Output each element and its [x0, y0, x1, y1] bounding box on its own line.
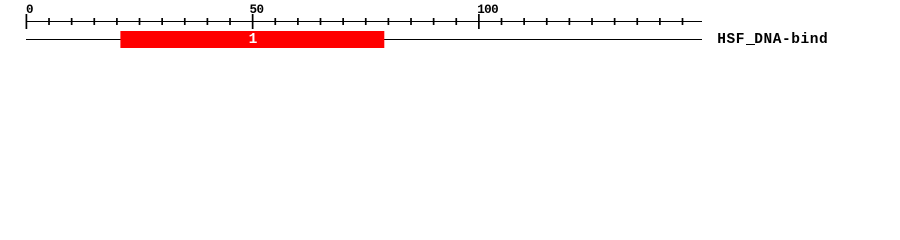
ruler baseline: [26, 21, 702, 22]
domain box 1 HSF_DNA-bind: [120, 31, 384, 48]
ruler minor tick 135: [636, 18, 638, 25]
ruler minor tick 120: [568, 18, 570, 25]
ruler minor tick 30: [161, 18, 163, 25]
ruler minor tick 125: [591, 18, 593, 25]
ruler minor tick 45: [229, 18, 231, 25]
ruler minor tick 20: [116, 18, 118, 25]
ruler tick marks: [0, 0, 900, 58]
ruler minor tick 25: [139, 18, 141, 25]
domain name label HSF_DNA-bind: [717, 33, 828, 48]
ruler major tick 50: [252, 14, 254, 29]
ruler minor tick 5: [48, 18, 50, 25]
ruler major tick 0: [25, 14, 27, 29]
ruler minor tick 15: [93, 18, 95, 25]
ruler label 100: [477, 5, 498, 16]
ruler minor tick 10: [71, 18, 73, 25]
ruler minor tick 65: [320, 18, 322, 25]
ruler major tick 100: [478, 14, 480, 29]
ruler minor tick 60: [297, 18, 299, 25]
ruler label 50: [250, 5, 264, 16]
ruler minor tick 95: [455, 18, 457, 25]
ruler minor tick 40: [206, 18, 208, 25]
ruler minor tick 80: [387, 18, 389, 25]
ruler minor tick 85: [410, 18, 412, 25]
ruler minor tick 130: [614, 18, 616, 25]
ruler minor tick 110: [523, 18, 525, 25]
underscore of HSF_DNA-bind label: [746, 44, 755, 45]
ruler label 0: [26, 5, 33, 16]
ruler minor tick 115: [546, 18, 548, 25]
ruler minor tick 55: [274, 18, 276, 25]
domain number 1: [249, 33, 258, 48]
ruler minor tick 105: [501, 18, 503, 25]
ruler minor tick 35: [184, 18, 186, 25]
ruler minor tick 90: [433, 18, 435, 25]
ruler minor tick 70: [342, 18, 344, 25]
ruler minor tick 145: [682, 18, 684, 25]
ruler minor tick 140: [659, 18, 661, 25]
protein backbone line: [26, 39, 702, 40]
ruler minor tick 75: [365, 18, 367, 25]
